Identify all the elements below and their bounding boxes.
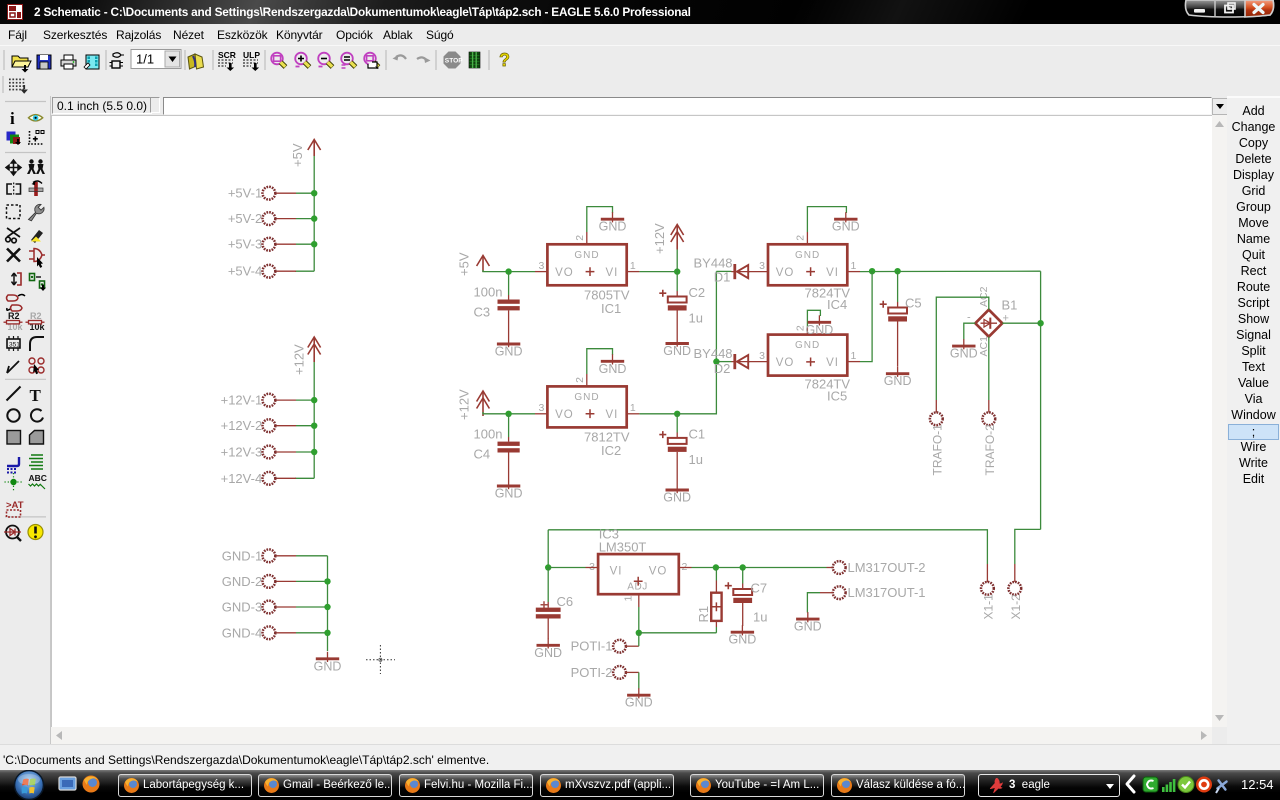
svg-text:VI: VI [826,267,839,279]
pin stub IC3 ADJ [638,594,640,607]
wire C5 to ground [897,322,899,367]
main toolbar [0,45,1280,74]
svg-text:12:54: 12:54 [1241,777,1274,792]
pad POTI-2 [613,666,626,679]
svg-text:VO: VO [776,267,795,279]
ground symbol below C1 [663,483,691,505]
pin stub +12V-1 [275,399,296,401]
pin stub TRAFO-2 [988,400,990,413]
pin stub GND-1 [275,555,296,557]
wire B1 AC1 to TRAFO-2 [988,337,990,400]
svg-text:IC1: IC1 [601,301,621,316]
pad GND-4 [263,626,276,639]
svg-text:B1: B1 [1002,298,1018,313]
svg-text:POTI-2: POTI-2 [571,665,613,680]
pad LM317OUT-2 [833,561,846,574]
svg-text:GND: GND [495,487,523,501]
svg-text:+5V-4: +5V-4 [228,264,262,279]
wire IC4 VI to output rail [860,270,1041,272]
wire top feed to X1-1 [548,530,987,564]
svg-text:+5V-1: +5V-1 [228,186,262,201]
svg-text:2: 2 [574,235,586,241]
svg-text:i: i [10,109,15,128]
svg-text:GND-4: GND-4 [222,625,262,640]
svg-text:GND: GND [832,220,860,234]
wire node down to C6 [547,568,549,603]
svg-text:GND: GND [884,374,912,388]
wire IC5 VI up to rail [860,271,872,361]
wire rail corner to D1 [716,270,731,272]
svg-text:POTI-1: POTI-1 [571,639,613,654]
svg-text:351: 351 [9,342,20,349]
svg-text:+12V-3: +12V-3 [221,445,263,460]
wire rail node down to C5 [897,271,899,302]
wire GND vertical bus [327,556,329,651]
wire node to C4 [508,414,510,437]
svg-text:D2: D2 [714,361,731,376]
svg-text:3: 3 [759,260,765,272]
wire +12V-2 to bus [296,425,314,427]
svg-text:VO: VO [776,357,795,369]
svg-text:+12V: +12V [457,389,472,420]
svg-text:AC1: AC1 [978,336,990,357]
junction node C1 [674,411,680,417]
svg-text:BY448: BY448 [694,346,733,361]
pad GND-3 [263,601,276,614]
wire LM317OUT-1 to ground [807,593,820,613]
svg-text:GND: GND [599,220,627,234]
ground symbol below C2 [663,337,691,359]
pin stub +12V-4 [275,477,296,479]
wire R1 bottom to ADJ rail [715,627,717,633]
pad LM317OUT-1 [833,586,846,599]
svg-text:3: 3 [539,260,545,272]
pin stub IC2 VI [627,413,640,415]
svg-text:1: 1 [851,350,857,362]
status bar [0,744,1280,771]
wire +12V-3 to bus [296,451,314,453]
junction +5V bus [311,241,317,247]
mouse crosshair cursor [366,645,395,674]
pin stub D2 to IC5 [748,361,768,363]
wire GND-4 to bus [296,632,328,634]
taskbar [0,770,1280,800]
svg-text:LM350T: LM350T [599,540,647,555]
svg-text:D1: D1 [714,270,731,285]
junction GND bus [324,630,330,636]
svg-text:ULP: ULP [243,50,260,60]
capacitor C6 [547,602,549,608]
ground symbol below C5 [884,367,912,389]
svg-text:C7: C7 [751,581,768,596]
svg-text:-: - [967,312,971,324]
svg-text:VO: VO [649,566,668,578]
junction node C3 [505,268,511,274]
capacitor C3 [508,295,510,300]
svg-text:T: T [30,386,42,405]
pad TRAFO-1 [930,412,943,425]
wire C3 to ground [508,310,510,337]
svg-text:GND: GND [663,344,691,358]
svg-text:+12V-1: +12V-1 [221,393,263,408]
svg-text:VI: VI [826,357,839,369]
wire B1 plus to rail [1002,322,1040,324]
svg-text:GND: GND [729,633,757,647]
ground symbol below C7 [729,625,757,647]
pin stub IC5 GND top [806,327,808,335]
wire IC2 VI to node C1 [639,413,677,415]
svg-text:C3: C3 [474,305,491,320]
svg-text:GND: GND [625,696,653,710]
pin stub +12V-2 [275,425,296,427]
wire +12V arrow to IC2 node [483,412,509,414]
wire +12V vertical bus [313,362,315,478]
wire B1 rail corner to X1-2 [1015,529,1041,564]
junction +12V bus [311,423,317,429]
svg-text:X1-1: X1-1 [982,594,996,620]
pin stub POTI-2 [626,671,639,673]
junction C7 top [740,564,746,570]
pad +12V-2 [263,419,276,432]
pin stub X1-1 [986,564,988,582]
pin stub IC1 VI [627,271,640,273]
pad +5V-1 [263,187,276,200]
svg-text:GND: GND [794,620,822,634]
svg-text:STOP: STOP [445,58,463,65]
pad +12V-3 [263,446,276,459]
voltage regulator IC4 7824TV [759,235,856,285]
ground symbol below LM317OUT-1 [794,612,822,634]
svg-text:GND-1: GND-1 [222,548,262,563]
wire C7 to ground [742,603,744,626]
pad GND-2 [263,575,276,588]
pin stub GND-2 [275,580,296,582]
svg-text:1: 1 [851,260,857,272]
ground symbol above IC2 [599,354,627,376]
svg-text:VI: VI [605,409,618,421]
svg-text:C2: C2 [689,285,706,300]
junction GND bus [324,604,330,610]
wire IC4 pin2 to ground symbol [807,207,846,232]
wire GND-2 to bus [296,580,328,582]
junction +5V bus [311,190,317,196]
svg-text:IC5: IC5 [827,389,847,404]
svg-text:C6: C6 [557,594,574,609]
svg-text:+5V: +5V [457,252,472,276]
wire C6 to ground [547,619,549,639]
wire B1 minus to ground [964,323,976,339]
wire +5V-1 to bus [296,192,314,194]
svg-text:R2: R2 [30,311,42,321]
pad TRAFO-2 [982,412,995,425]
svg-text:1: 1 [623,596,635,602]
pin stub IC5 VI [847,361,860,363]
junction diode rail at D2 [713,358,719,364]
capacitor C5 (electrolytic) [897,302,899,308]
svg-text:VO: VO [555,409,574,421]
wire C4 to ground [508,453,510,480]
wire node down to C2 [676,272,678,291]
pad GND-1 [263,549,276,562]
wire POTI-1 to ADJ node [638,633,640,646]
pin stub IC1 GND top [586,232,588,244]
capacitor C1 (electrolytic) [676,433,678,438]
voltage regulator IC5 7824TV [759,325,856,376]
svg-text:GND: GND [534,646,562,660]
svg-text:GND-2: GND-2 [222,574,262,589]
pad +12V-4 [263,472,276,485]
voltage regulator IC1 7805TV [539,235,636,285]
title bar [0,0,1280,24]
svg-text:+: + [33,135,38,144]
svg-text:IC4: IC4 [827,297,847,312]
voltage regulator IC2 7812TV [539,377,636,428]
svg-text:100n: 100n [474,427,503,442]
wire node C1 to diode rail [677,271,716,413]
pad X1-1 [981,582,994,595]
svg-text:LM317OUT-2: LM317OUT-2 [848,560,926,575]
junction +12V bus [311,397,317,403]
wire +12V-4 horizontal [295,477,314,479]
pin stub +5V-2 [275,218,296,220]
junction C5 node [894,268,900,274]
capacitor C7 (electrolytic) [742,584,744,590]
junction node C4 [505,411,511,417]
wire IC1 pin2 to ground symbol [587,207,613,232]
svg-text:GND: GND [599,362,627,376]
diode D1 BY448 [731,264,750,279]
svg-text:?: ? [499,50,510,70]
wire node to IC3 VI [548,567,585,569]
junction IC3 input node [545,564,551,570]
pin stub IC3 VO [679,567,692,569]
svg-text:1/1: 1/1 [136,52,154,67]
svg-text:+12V: +12V [292,344,307,375]
svg-text:GND-3: GND-3 [222,600,262,615]
ground symbol below C3 [495,337,523,359]
svg-text:SCR: SCR [218,50,236,60]
svg-text:GND: GND [574,392,599,403]
capacitor C4 [508,437,510,442]
junction ADJ node [636,630,642,636]
svg-text:VI: VI [610,566,623,578]
pin stub IC4 GND top [806,232,808,244]
pin stub IC1 VO [535,271,547,273]
svg-text:TRAFO-1: TRAFO-1 [931,424,945,476]
svg-text:TRAFO-2: TRAFO-2 [983,424,997,476]
resistor R1 [711,593,721,621]
svg-text:1u: 1u [689,452,703,467]
left tool panel [0,96,51,744]
ground symbol below POTI-2 [625,688,653,710]
supply +12V symbol above C2 [671,225,684,250]
ground symbol above IC1 [599,212,627,234]
grid row [0,73,1280,96]
wire +5V arrow to IC1 node [483,270,509,272]
svg-text:GND: GND [950,347,978,361]
pin stub +12V-3 [275,451,296,453]
junction node C2 [674,268,680,274]
wire node to IC2 pin VO [509,413,535,415]
wire POTI-2 to ground [638,672,640,688]
wire GND-1 to bus [296,555,328,557]
svg-text:1u: 1u [689,311,703,326]
command row [0,96,1280,115]
svg-text:R2: R2 [8,311,20,321]
svg-text:3: 3 [759,350,765,362]
pin stub GND-3 [275,606,296,608]
svg-text:VI: VI [605,267,618,279]
wire C7 top [742,568,744,584]
capacitor C2 (electrolytic) [676,291,678,297]
pad +5V-2 [263,212,276,225]
supply +12V symbol (left header) [308,337,321,362]
svg-text:IC2: IC2 [601,443,621,458]
svg-text:LM317OUT-1: LM317OUT-1 [848,585,926,600]
pad X1-2 [1008,582,1021,595]
ground symbol below C6 [534,638,562,660]
svg-text:GND: GND [795,250,820,261]
supply +12V symbol at IC2 input [477,391,490,416]
supply +5V symbol at IC1 input [477,256,490,273]
pin stub LM317OUT-2 [827,567,834,569]
pin stub +5V-3 [275,243,296,245]
pad +5V-3 [263,238,276,251]
wire node to C3 [508,272,510,295]
svg-text:GND: GND [314,659,342,673]
svg-text:GND: GND [495,345,523,359]
pin stub IC2 VO [535,413,547,415]
menu bar [0,24,1280,46]
svg-text:2: 2 [574,377,586,383]
ground symbol below GND bus [314,652,342,674]
scrollbars [1212,115,1227,727]
junction +5V bus [311,215,317,221]
svg-text:ABC: ABC [29,473,47,483]
pin stub +5V-1 [275,192,296,194]
junction +12V bus [311,449,317,455]
svg-text:+5V-3: +5V-3 [228,237,262,252]
supply +5V symbol (left header) [308,140,321,157]
wire C1 to ground [676,452,678,483]
junction GND bus [324,578,330,584]
wire node up to +12V arrow [676,249,678,272]
svg-text:GND: GND [806,323,834,337]
wire IC2 pin2 to ground symbol [587,349,613,374]
regulator IC3 LM350T [589,554,687,601]
pin stub IC4 VI [847,271,860,273]
pin stub R1 top [715,581,717,593]
svg-text:X1-2: X1-2 [1009,594,1023,620]
pad POTI-1 [613,640,626,653]
wire C2 to ground [676,311,678,337]
pin stub LM317OUT-1 [820,592,833,594]
wire rail to B1 output junction [1040,271,1042,529]
svg-text:C4: C4 [474,447,491,462]
wire B1 AC2 to TRAFO-1 [936,297,989,400]
pin stub POTI-1 [626,645,639,647]
svg-text:+12V: +12V [652,223,667,254]
wire R1 top to VO rail [715,568,717,581]
wire ADJ node to R1 bottom [639,632,717,634]
svg-text:+12V-4: +12V-4 [221,471,263,486]
svg-text:1: 1 [630,260,636,272]
svg-text:GND: GND [795,340,820,351]
right command panel [1227,96,1280,744]
wire +5V-4 horizontal [295,270,314,272]
wire GND-3 to bus [296,606,328,608]
wire node to IC1 pin VO [509,271,535,273]
wire IC5 pin2 to ground symbol [807,310,820,327]
pin stub IC3 VI [586,567,599,569]
junction B1 plus output [1037,320,1043,326]
diode D2 BY448 [731,354,750,369]
pin stub TRAFO-1 [935,400,937,413]
wire +5V-2 to bus [296,218,314,220]
svg-text:C1: C1 [689,427,706,442]
ground symbol above IC5 [806,315,834,337]
wire top feed corner down to IC3 node [547,530,549,568]
junction IC5 feed [869,268,875,274]
svg-text:BY448: BY448 [694,256,733,271]
svg-text:GND: GND [574,250,599,261]
pin stub R1 bottom [715,621,717,627]
pin stub IC2 GND top [586,374,588,386]
svg-text:1: 1 [630,402,636,414]
wire +5V-3 to bus [296,243,314,245]
svg-text:VO: VO [555,267,574,279]
svg-text:100n: 100n [474,285,503,300]
svg-text:+12V-2: +12V-2 [221,418,263,433]
wire +12V-1 to bus [296,399,314,401]
wire IC1 VI to node C2 [639,271,677,273]
wire IC3 VO to output pads [692,567,827,569]
pin stub GND-4 [275,632,296,634]
ground symbol above IC4 [832,212,860,234]
pad +12V-1 [263,394,276,407]
ground symbol at B1 minus [950,339,978,361]
pin stub X1-2 [1014,564,1016,582]
wire rail to D2 [716,361,731,363]
svg-text:C5: C5 [905,296,922,311]
svg-text:3: 3 [539,402,545,414]
pin stub D1 to IC4 [748,271,768,273]
pin stub +5V-4 [275,270,296,272]
wire +5V vertical bus [313,156,315,271]
bridge rectifier B1 [975,310,1002,337]
ground symbol below C4 [495,479,523,501]
svg-text:2: 2 [795,235,807,241]
wire ADJ down to node [638,607,640,633]
svg-text:+5V-2: +5V-2 [228,211,262,226]
svg-text:R1: R1 [696,606,711,623]
svg-text:1u: 1u [753,610,767,625]
junction R1 top [713,564,719,570]
pad +5V-4 [263,265,276,278]
wire node down to C1 [676,414,678,433]
svg-text:+5V: +5V [290,143,305,167]
svg-text:GND: GND [663,491,691,505]
